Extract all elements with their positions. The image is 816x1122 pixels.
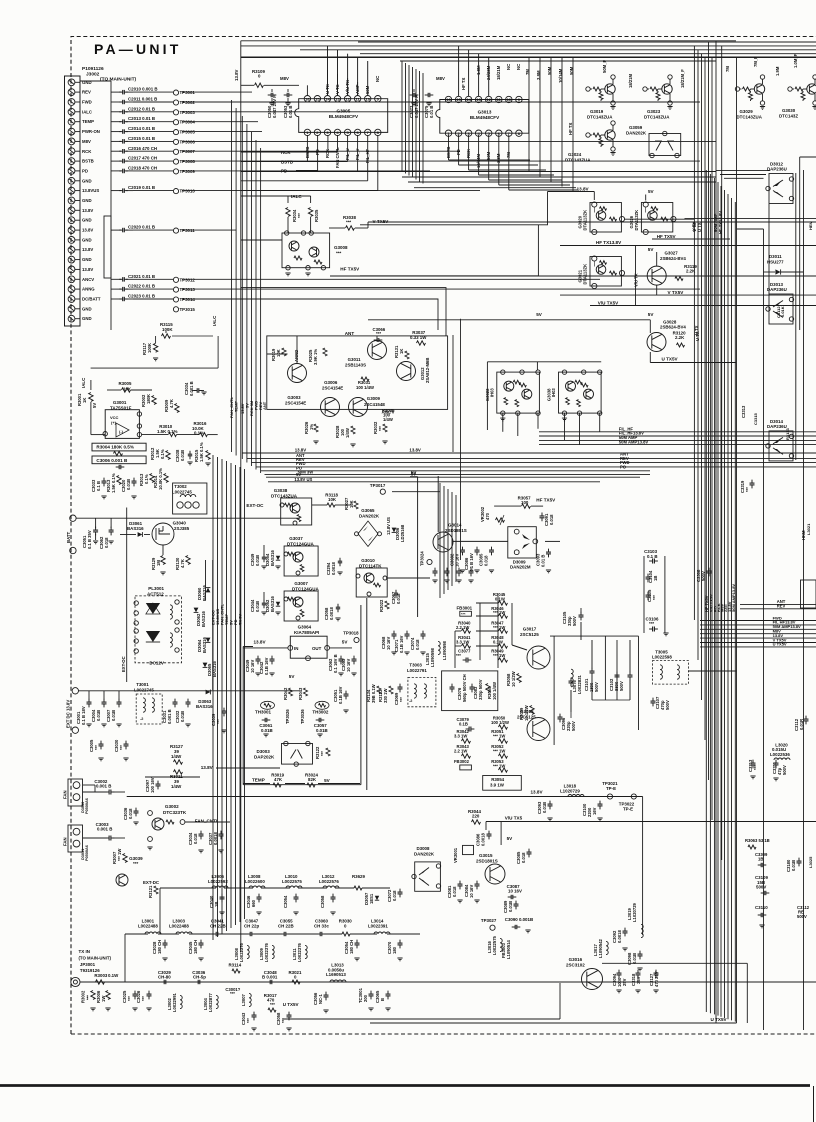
svg-text:TEMP: TEMP [82, 119, 94, 124]
svg-text:0.001 B: 0.001 B [167, 709, 172, 724]
svg-text:C3006 0.001 B: C3006 0.001 B [96, 458, 128, 463]
svg-text:TP3007: TP3007 [180, 149, 196, 154]
svg-text:0.01B: 0.01B [542, 802, 547, 813]
wire loop V TX5V [360, 192, 548, 276]
svg-text:(TO MAIN-UNIT): (TO MAIN-UNIT) [79, 956, 112, 961]
capacitor C2017 470 CH [111, 160, 121, 162]
svg-text:470: 470 [485, 512, 490, 520]
connector pin 13 GND [68, 197, 75, 204]
svg-text:500V: 500V [782, 765, 787, 775]
svg-text:50M AMP13.8V: 50M AMP13.8V [619, 439, 649, 444]
svg-text:C2019 0.01 B: C2019 0.01 B [128, 185, 155, 190]
test point TP3004 [133, 121, 173, 123]
right area small box [801, 580, 816, 608]
svg-text:0.018: 0.018 [128, 808, 133, 819]
svg-text:REV: REV [777, 604, 786, 609]
svg-text:IALC: IALC [212, 315, 217, 326]
svg-text:L1090542: L1090542 [598, 938, 603, 958]
svg-text:TP3018: TP3018 [343, 631, 359, 636]
wire G3038 drops to FIL bus [564, 413, 566, 440]
wire right vertical 803 [803, 170, 805, 1030]
svg-text:C2014 0.01 B: C2014 0.01 B [128, 126, 155, 131]
svg-text:L1020729: L1020729 [632, 902, 637, 922]
svg-text:PWR-ON: PWR-ON [82, 129, 100, 134]
svg-text:1.0M_F: 1.0M_F [793, 53, 798, 68]
svg-text:***: *** [119, 745, 124, 750]
svg-text:DTC143ZUA: DTC143ZUA [565, 158, 591, 163]
connector EXT pin1 [72, 688, 78, 694]
svg-text:0.1 B: 0.1 B [647, 554, 658, 559]
svg-text:5V: 5V [648, 312, 655, 317]
svg-text:0.0018: 0.0018 [617, 930, 622, 943]
capacitor C3102 symbol wire [629, 640, 631, 672]
pin label box 13.8V group [104, 216, 111, 278]
svg-text:TP-E: TP-E [606, 786, 616, 791]
svg-text:DTC143Z: DTC143Z [779, 114, 798, 119]
svg-text:-2: -2 [409, 699, 412, 703]
svg-text:FWD: FWD [82, 100, 92, 105]
svg-text:***: *** [399, 697, 404, 702]
svg-text:5V: 5V [536, 312, 543, 317]
connector pin 5 TEMP [68, 118, 75, 125]
svg-text:5V: 5V [324, 778, 331, 783]
wire BSTB row [296, 161, 307, 163]
svg-text:2SC4154E: 2SC4154E [285, 401, 306, 406]
svg-text:DAP236U: DAP236U [767, 287, 787, 292]
svg-text:***: *** [461, 613, 466, 617]
svg-text:180: 180 [392, 946, 397, 954]
svg-text:0.01B: 0.01B [96, 710, 101, 721]
capacitor C2021 0.01 B [111, 278, 121, 280]
svg-text:TP3006: TP3006 [180, 139, 196, 144]
svg-text:L1020729: L1020729 [560, 789, 580, 794]
test point TP3013 [133, 288, 173, 290]
svg-text:0.01 B: 0.01 B [429, 106, 434, 118]
svg-text:10 16V: 10 16V [455, 554, 460, 567]
connector pin 8 RCK [68, 148, 75, 155]
svg-text:PD: PD [82, 168, 88, 173]
diode block G3038 IH03 [559, 372, 602, 413]
resistor R3004 180K 0.5% box [92, 443, 146, 451]
svg-text:C2013 0.01 B: C2013 0.01 B [128, 116, 155, 121]
wire G3016 out [602, 962, 747, 964]
svg-text:10 16V: 10 16V [469, 885, 474, 898]
svg-text:GND: GND [82, 198, 92, 203]
svg-text:B 0.001: B 0.001 [262, 975, 278, 980]
svg-text:PA—UNIT: PA—UNIT [94, 41, 181, 57]
wire right vertical 763 [763, 229, 765, 1030]
svg-text:100 1/4W: 100 1/4W [492, 682, 497, 700]
svg-text:560p 500V CH: 560p 500V CH [462, 674, 467, 702]
test point TP3007 [133, 150, 173, 152]
svg-text:R3063 53 1B: R3063 53 1B [745, 838, 770, 843]
svg-text:L0022592: L0022592 [208, 879, 228, 884]
svg-text:***: *** [94, 745, 99, 750]
svg-text:V/U TX5V: V/U TX5V [598, 301, 619, 306]
connector pin 4 IALC [68, 108, 75, 115]
svg-text:G3011: G3011 [348, 357, 361, 362]
svg-text:10 1/2W: 10 1/2W [511, 671, 516, 687]
svg-text:GND: GND [82, 257, 92, 262]
connector pin 16 13.8V [68, 227, 75, 234]
svg-text:L0022600: L0022600 [245, 879, 265, 884]
wire mid horizontals 170-192 [241, 171, 716, 173]
svg-text:BAS316: BAS316 [127, 526, 144, 531]
svg-text:G3017: G3017 [523, 627, 537, 632]
svg-text:GND: GND [82, 306, 92, 311]
svg-text:***: *** [281, 1018, 286, 1023]
wire HF TX13.8 row [560, 245, 816, 247]
diode block G3022 IH03 [497, 372, 540, 413]
svg-text:13.8V: 13.8V [234, 69, 239, 81]
transistor G3029 DTC143ZUA [735, 87, 739, 91]
svg-text:L0022391: L0022391 [368, 924, 388, 929]
svg-text:13.8V: 13.8V [254, 640, 267, 645]
wire G3005 bottom staircase [337, 135, 339, 152]
svg-text:***: *** [652, 595, 657, 600]
svg-text:0.1 B 18V: 0.1 B 18V [81, 706, 86, 725]
svg-text:13.8V US: 13.8V US [386, 517, 391, 535]
svg-text:L3021: L3021 [806, 523, 811, 535]
svg-text:GND: GND [82, 237, 92, 242]
wire loop around mid [241, 288, 446, 336]
svg-text:TP3001: TP3001 [180, 90, 196, 95]
svg-text:2SJ385: 2SJ385 [174, 526, 190, 531]
transistor G3011 2SB1143S [368, 341, 387, 360]
test point TP3022 TP-E [631, 794, 636, 799]
top caps row PA [433, 570, 438, 572]
svg-text:NC: NC [375, 76, 380, 82]
svg-text:C2020 0.01 B: C2020 0.01 B [128, 225, 155, 230]
svg-text:10 16V: 10 16V [346, 659, 351, 672]
svg-text:10: 10 [507, 97, 512, 102]
svg-text:(-): (-) [119, 429, 124, 434]
test point TP3015 [173, 307, 178, 312]
svg-text:HF TX: HF TX [568, 122, 573, 135]
svg-text:R3114: R3114 [229, 963, 242, 968]
wire V/U TX5 bus [486, 821, 816, 823]
svg-text:G3038: G3038 [274, 488, 288, 493]
svg-text:IALC: IALC [82, 109, 92, 114]
svg-text:FAN: FAN [63, 837, 68, 846]
wire 5V row mid [368, 319, 650, 321]
svg-text:R3004 180K 0.5%: R3004 180K 0.5% [96, 445, 134, 450]
wires opamp area [90, 380, 92, 390]
svg-text:L0022877: L0022877 [208, 992, 213, 1012]
diode pack D3013 DAP236U [769, 294, 793, 324]
diode pack D3014 DAP236U [769, 431, 793, 461]
svg-text:0.018: 0.018 [104, 537, 109, 548]
svg-text:TEMP: TEMP [252, 778, 265, 783]
svg-text:G3014: G3014 [448, 523, 462, 528]
svg-text:TP3009: TP3009 [180, 169, 196, 174]
thermistor TH3002 [315, 701, 329, 709]
svg-text:TP3011: TP3011 [180, 228, 196, 233]
svg-text:7M: 7M [725, 66, 730, 72]
wire relay verticals [126, 508, 128, 683]
capacitor C2012 0.01 B [111, 111, 121, 113]
svg-text:1.5K 0.1%: 1.5K 0.1% [111, 473, 116, 493]
svg-text:0.047 25V F: 0.047 25V F [414, 95, 419, 118]
transistor G3003 2SC4154E [288, 364, 307, 383]
svg-text:L0022488: L0022488 [138, 924, 158, 929]
svg-text:0.047 25V F: 0.047 25V F [272, 95, 277, 118]
svg-text:DTC143ZUA: DTC143ZUA [587, 115, 613, 120]
svg-text:0.1B: 0.1B [459, 721, 468, 726]
svg-text:***: *** [336, 251, 342, 256]
svg-text:CH 33c: CH 33c [314, 924, 329, 929]
svg-text:0.0018: 0.0018 [213, 832, 218, 845]
svg-text:BAS316: BAS316 [270, 596, 275, 612]
svg-text:VR3001: VR3001 [453, 847, 458, 863]
svg-text:G3037: G3037 [289, 536, 303, 541]
svg-text:13.8VUS: 13.8VUS [82, 188, 99, 193]
svg-text:DTC143ZUA: DTC143ZUA [644, 115, 670, 120]
svg-text:J3002: J3002 [86, 72, 100, 78]
svg-text:1W: 1W [101, 996, 106, 1002]
wire G3020 outputs [624, 218, 694, 220]
svg-text:L0022576: L0022576 [319, 879, 339, 884]
connector J3002 body [65, 76, 81, 326]
svg-text:13.8V: 13.8V [577, 187, 590, 192]
connector pin 18 13.8V [68, 246, 75, 253]
svg-text:50M_F: 50M_F [602, 60, 607, 73]
svg-text:***: *** [270, 1002, 275, 1007]
svg-text:L0022376: L0022376 [264, 942, 269, 962]
svg-text:15: 15 [315, 96, 320, 101]
svg-text:U TX5V: U TX5V [711, 1017, 728, 1022]
svg-text:D3008: D3008 [417, 846, 430, 851]
wire PA collector bus [550, 635, 639, 637]
svg-text:R3005: R3005 [119, 381, 132, 386]
connector pin 11 GND [68, 177, 75, 184]
svg-text:*** 1W: *** 1W [493, 748, 505, 753]
svg-text:BAS316: BAS316 [201, 611, 206, 627]
svg-text:0.01B: 0.01B [180, 711, 185, 722]
connector pin 1 GND [68, 79, 75, 86]
svg-text:1ES1: 1ES1 [369, 893, 374, 904]
svg-text:1.5K 0.1%: 1.5K 0.1% [157, 429, 178, 434]
svg-text:10K: 10K [276, 349, 281, 357]
svg-text:1.5K 0.1%: 1.5K 0.1% [199, 442, 204, 462]
wires PA ladder [476, 602, 498, 604]
svg-text:L1090598: L1090598 [442, 640, 447, 660]
svg-text:***: *** [86, 995, 91, 1000]
svg-text:14: 14 [466, 97, 471, 102]
svg-text:100K: 100K [162, 327, 173, 332]
wire PA ladder interconnects [479, 603, 481, 660]
svg-text:7M_F: 7M_F [753, 56, 758, 67]
svg-text:0.0018: 0.0018 [331, 562, 336, 575]
svg-text:TP3015: TP3015 [180, 307, 196, 312]
svg-text:***: *** [456, 653, 461, 658]
svg-text:0.018: 0.018 [549, 514, 554, 525]
svg-text:13: 13 [335, 96, 340, 101]
svg-text:2SC4154E: 2SC4154E [364, 402, 385, 407]
svg-text:***: *** [246, 1018, 251, 1023]
svg-text:0.1B 16V: 0.1B 16V [264, 657, 269, 675]
svg-text:BSTB: BSTB [82, 159, 94, 164]
svg-text:CH-5p: CH-5p [193, 975, 206, 980]
svg-text:***: *** [297, 213, 302, 218]
svg-text:0.01B: 0.01B [791, 860, 796, 871]
wires fan area [83, 784, 95, 786]
test point TP3014 [133, 298, 173, 300]
svg-text:10 16V: 10 16V [386, 637, 391, 650]
svg-text:C3090 0.001B: C3090 0.001B [505, 917, 533, 922]
svg-text:R3042: R3042 [283, 687, 288, 700]
svg-text:FAN_CNTL: FAN_CNTL [195, 819, 219, 824]
connector pin 22 ANNG [68, 286, 75, 293]
svg-text:(TO MAIN-UNIT): (TO MAIN-UNIT) [100, 77, 137, 83]
wire VU TX vertical [635, 246, 637, 306]
connector pin 6 PWR-ON [68, 128, 75, 135]
svg-text:500V: 500V [594, 682, 599, 692]
svg-text:*** 1W: *** 1W [493, 763, 505, 768]
wire G3013 pin risers [458, 46, 460, 96]
svg-text:L1090598: L1090598 [430, 647, 435, 667]
svg-text:100K: 100K [147, 343, 152, 353]
svg-text:C3054: C3054 [283, 895, 288, 908]
svg-text:L3025: L3025 [808, 856, 813, 868]
svg-text:DTA113ZK: DTA113ZK [634, 210, 639, 231]
svg-text:BLM4948CFV: BLM4948CFV [329, 114, 359, 119]
svg-text:0.01B: 0.01B [261, 728, 273, 733]
svg-text:L0022791: L0022791 [407, 668, 427, 673]
svg-text:G3006: G3006 [324, 380, 338, 385]
wire G3005 pin risers [327, 46, 329, 96]
svg-text:TP3026: TP3026 [285, 709, 290, 724]
wire top bus 1 [358, 41, 816, 43]
wire 13.8V fan row [145, 776, 200, 778]
svg-text:LD25168: LD25168 [400, 524, 405, 542]
svg-text:G3065: G3065 [361, 508, 375, 513]
svg-text:100 16V: 100 16V [150, 777, 155, 793]
svg-text:0.01K: 0.01K [780, 306, 785, 317]
svg-text:HSU277: HSU277 [767, 260, 784, 265]
svg-text:500V: 500V [665, 700, 670, 710]
svg-text:REV: REV [82, 90, 91, 95]
svg-text:1K: 1K [82, 398, 87, 403]
svg-text:C2018 470 CH: C2018 470 CH [128, 165, 157, 170]
transistor G3023 DTC143ZUA [643, 87, 647, 91]
wire right edge verticals [795, 173, 797, 460]
svg-text:IN: IN [294, 646, 298, 651]
connector pin 7 M8V [68, 138, 75, 145]
test point TP3001 [133, 91, 173, 93]
box C3076 C3083 R3055 [442, 671, 498, 711]
svg-text:13.8V US: 13.8V US [294, 477, 312, 482]
connector TX IN [71, 977, 80, 986]
svg-text:IH03: IH03 [489, 388, 494, 398]
svg-text:PO: PO [620, 464, 627, 469]
test point TP3002 [133, 101, 173, 103]
svg-text:G3010: G3010 [361, 558, 375, 563]
svg-text:ANT: ANT [345, 331, 355, 336]
wire HF TX5V G3026 row [652, 238, 730, 240]
svg-text:1M: 1M [156, 560, 161, 566]
svg-text:0.018: 0.018 [193, 833, 198, 844]
svg-text:13.8V: 13.8V [82, 228, 93, 233]
wire texture horizontals y 505-530 [345, 504, 352, 506]
svg-text:TP3036: TP3036 [300, 709, 305, 724]
svg-text:***: *** [649, 621, 654, 626]
svg-text:0.01B: 0.01B [632, 953, 637, 964]
svg-text:TP3004: TP3004 [180, 120, 196, 125]
svg-text:0.1 B 35V: 0.1 B 35V [87, 530, 92, 549]
svg-text:4.7K: 4.7K [180, 559, 185, 568]
svg-text:T3003: T3003 [409, 663, 422, 668]
connector pin 10 PD [68, 168, 75, 175]
wire bundle ext-dc verticals [212, 455, 214, 940]
svg-text:TP3005: TP3005 [180, 130, 196, 135]
wire 13.8V pa bus [127, 796, 643, 798]
wire nested corners right bundle [716, 170, 770, 172]
svg-text:10K: 10K [328, 497, 337, 502]
svg-text:G3013: G3013 [478, 110, 492, 115]
svg-text:R3035: R3035 [314, 209, 319, 222]
capacitor C2018 470 CH [111, 170, 121, 172]
svg-text:12: 12 [486, 97, 491, 102]
svg-text:TH3002: TH3002 [312, 710, 329, 715]
svg-text:L1690513: L1690513 [326, 972, 346, 977]
svg-text:DAP236U: DAP236U [767, 424, 787, 429]
svg-text:1/4W: 1/4W [345, 428, 350, 438]
svg-text:0.01B: 0.01B [255, 601, 260, 612]
transistor G3030 DTC143ZUA [788, 87, 792, 91]
svg-text:IH03: IH03 [551, 388, 556, 398]
svg-text:B: B [380, 998, 385, 1001]
svg-text:16: 16 [446, 97, 451, 102]
svg-text:*** 1W: *** 1W [493, 733, 505, 738]
wire top bus 6 [400, 60, 716, 62]
svg-text:180 CH: 180 CH [193, 940, 198, 954]
transistor G3020 DTA113ZK [590, 203, 621, 233]
wires G3005 top pins up [306, 85, 308, 95]
transistor G3019 DTC143ZUA [586, 87, 590, 91]
wire temp row [243, 783, 270, 785]
svg-text:G3007: G3007 [294, 581, 308, 586]
wire T3005 out [688, 670, 736, 672]
svg-text:***: *** [376, 331, 381, 336]
svg-text:2SC5125: 2SC5125 [520, 632, 539, 637]
connector pin 24 GND [68, 305, 75, 312]
svg-text:DTC323TK: DTC323TK [163, 810, 187, 815]
svg-text:L1090514: L1090514 [506, 939, 511, 959]
svg-text:2.2K: 2.2K [686, 268, 696, 273]
svg-text:18/21M_F: 18/21M_F [680, 69, 685, 88]
svg-text:KIA7805API: KIA7805API [294, 630, 319, 635]
wire bundle mid-left verticals [231, 100, 233, 452]
svg-text:TP3013: TP3013 [180, 287, 196, 292]
svg-text:U TX5V: U TX5V [283, 1002, 299, 1007]
svg-text:0.018: 0.018 [452, 886, 457, 897]
svg-text:1K: 1K [399, 349, 404, 354]
capacitor C2023 0.01 B [111, 298, 121, 300]
svg-text:T3001: T3001 [136, 682, 149, 687]
svg-text:13.8V: 13.8V [82, 247, 93, 252]
svg-text:CH-80: CH-80 [158, 975, 171, 980]
svg-text:0.1 16V B: 0.1 16V B [333, 654, 338, 673]
svg-text:HF TX5V: HF TX5V [340, 267, 360, 272]
main unit box right edge [736, 57, 738, 1023]
svg-text:IALC: IALC [81, 377, 86, 388]
svg-text:V TX5V: V TX5V [668, 290, 685, 295]
svg-text:***: *** [378, 426, 383, 431]
transistor G3024 DTC143ZUA [586, 133, 590, 137]
svg-text:CH 22B: CH 22B [210, 924, 226, 929]
wire VU TX5 drop [500, 822, 502, 846]
